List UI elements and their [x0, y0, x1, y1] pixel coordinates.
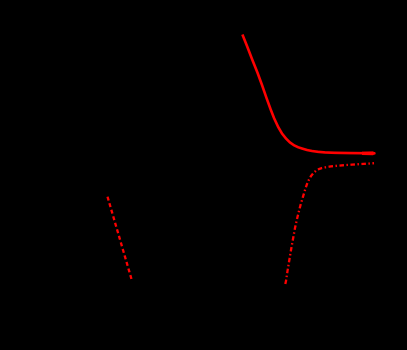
lower adiabatic potential curve (dash-dot red)	[285, 163, 374, 284]
upper adiabatic potential curve (solid red)	[242, 35, 375, 154]
arrow tip at right end of solid curve	[362, 151, 376, 155]
diabatic crossing line (dashed red, lower left)	[108, 197, 133, 282]
